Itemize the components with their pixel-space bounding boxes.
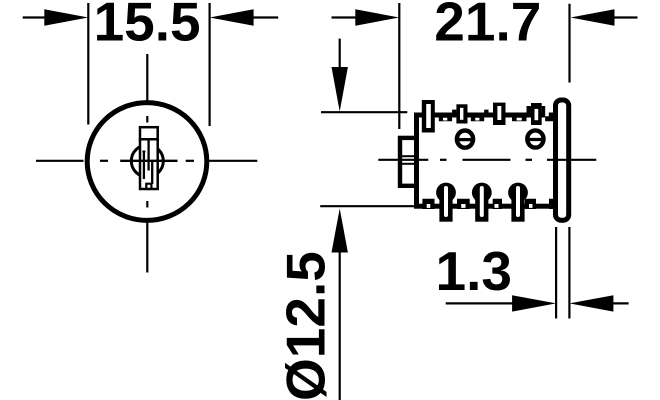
key channel tick xyxy=(142,151,145,153)
body rectangle xyxy=(417,115,556,206)
horizontal centerline right dot xyxy=(186,160,194,162)
screw head theta left xyxy=(457,131,473,148)
dimension 15.5 xyxy=(23,0,279,126)
dimension 1.3 xyxy=(436,227,629,319)
arrow left xyxy=(355,9,399,25)
extension line left xyxy=(555,227,557,319)
svg-text:1.3: 1.3 xyxy=(436,240,512,302)
inner circle (core) xyxy=(131,145,163,177)
keyhole bottom notch xyxy=(146,184,151,189)
collar line upper xyxy=(400,155,414,157)
dimension line right tail xyxy=(610,16,638,18)
arrow right xyxy=(569,295,613,311)
horizontal centerline left dash xyxy=(36,160,84,162)
arrow right xyxy=(210,9,254,25)
key channel line right xyxy=(151,162,153,184)
key channel line center xyxy=(147,139,149,170)
flange (cam disc) xyxy=(556,100,569,220)
extension tick bottom xyxy=(320,205,414,207)
dimension line left tail xyxy=(446,302,515,304)
side centerline dot left xyxy=(440,159,447,161)
arrow left xyxy=(44,9,88,25)
arrow down xyxy=(332,67,348,112)
top edge teeth clusters xyxy=(439,113,554,121)
bottom edge teeth clusters xyxy=(422,199,553,209)
horizontal centerline left dot xyxy=(100,160,108,162)
vertical centerline lower dot xyxy=(146,201,148,208)
extension line right xyxy=(568,4,570,83)
side centerline dash through collar xyxy=(378,159,428,161)
dimension diameter 12.5 xyxy=(275,39,415,400)
keyhole slot outline xyxy=(140,127,158,189)
pin 3 xyxy=(508,183,528,203)
extension line right xyxy=(209,3,211,126)
top tab 3 xyxy=(493,103,506,125)
side centerline right dash xyxy=(547,159,596,161)
svg-text:Ø12.5: Ø12.5 xyxy=(275,251,337,400)
extension line right xyxy=(568,227,570,319)
key channel line left xyxy=(143,152,145,180)
extension line left xyxy=(87,3,89,125)
side view: cylinder body xyxy=(378,100,596,222)
dimension line left tail xyxy=(23,16,50,18)
bottom edge notches white xyxy=(427,204,533,208)
vertical line above xyxy=(339,39,341,70)
dimension line right tail xyxy=(612,302,629,304)
front view: cylinder face xyxy=(36,54,257,273)
arrow right xyxy=(571,9,615,25)
top edge notches white xyxy=(443,112,549,121)
collar line lower xyxy=(400,163,414,165)
vertical centerline top dash xyxy=(146,54,148,104)
arrow up xyxy=(332,209,348,253)
side centerline dot right xyxy=(526,159,533,161)
pin 1 xyxy=(436,183,456,203)
horizontal centerline mid dash xyxy=(120,160,177,162)
top edge bumps up xyxy=(452,106,545,118)
horizontal centerline right dash xyxy=(206,160,257,162)
outer circle xyxy=(87,103,207,221)
extension line left xyxy=(398,3,400,129)
dimension 21.7 xyxy=(332,0,638,129)
vertical centerline bottom dash xyxy=(146,218,148,273)
top tab 1 xyxy=(422,100,435,133)
extension tick top xyxy=(321,111,407,113)
svg-text:21.7: 21.7 xyxy=(434,0,541,52)
vertical line below xyxy=(339,250,341,400)
dimension line right tail xyxy=(248,16,278,18)
top tab 2 xyxy=(456,104,467,123)
screw head theta right xyxy=(527,130,543,147)
side centerline mid dash xyxy=(463,159,511,161)
arrow left xyxy=(512,295,556,311)
vertical centerline upper dot xyxy=(146,116,148,123)
svg-text:15.5: 15.5 xyxy=(94,0,201,52)
collar left xyxy=(400,138,417,186)
dimension line left tail xyxy=(332,16,361,18)
keyhole top bar xyxy=(139,138,159,141)
pin 2 xyxy=(472,183,492,203)
top tab 4 xyxy=(531,103,542,125)
